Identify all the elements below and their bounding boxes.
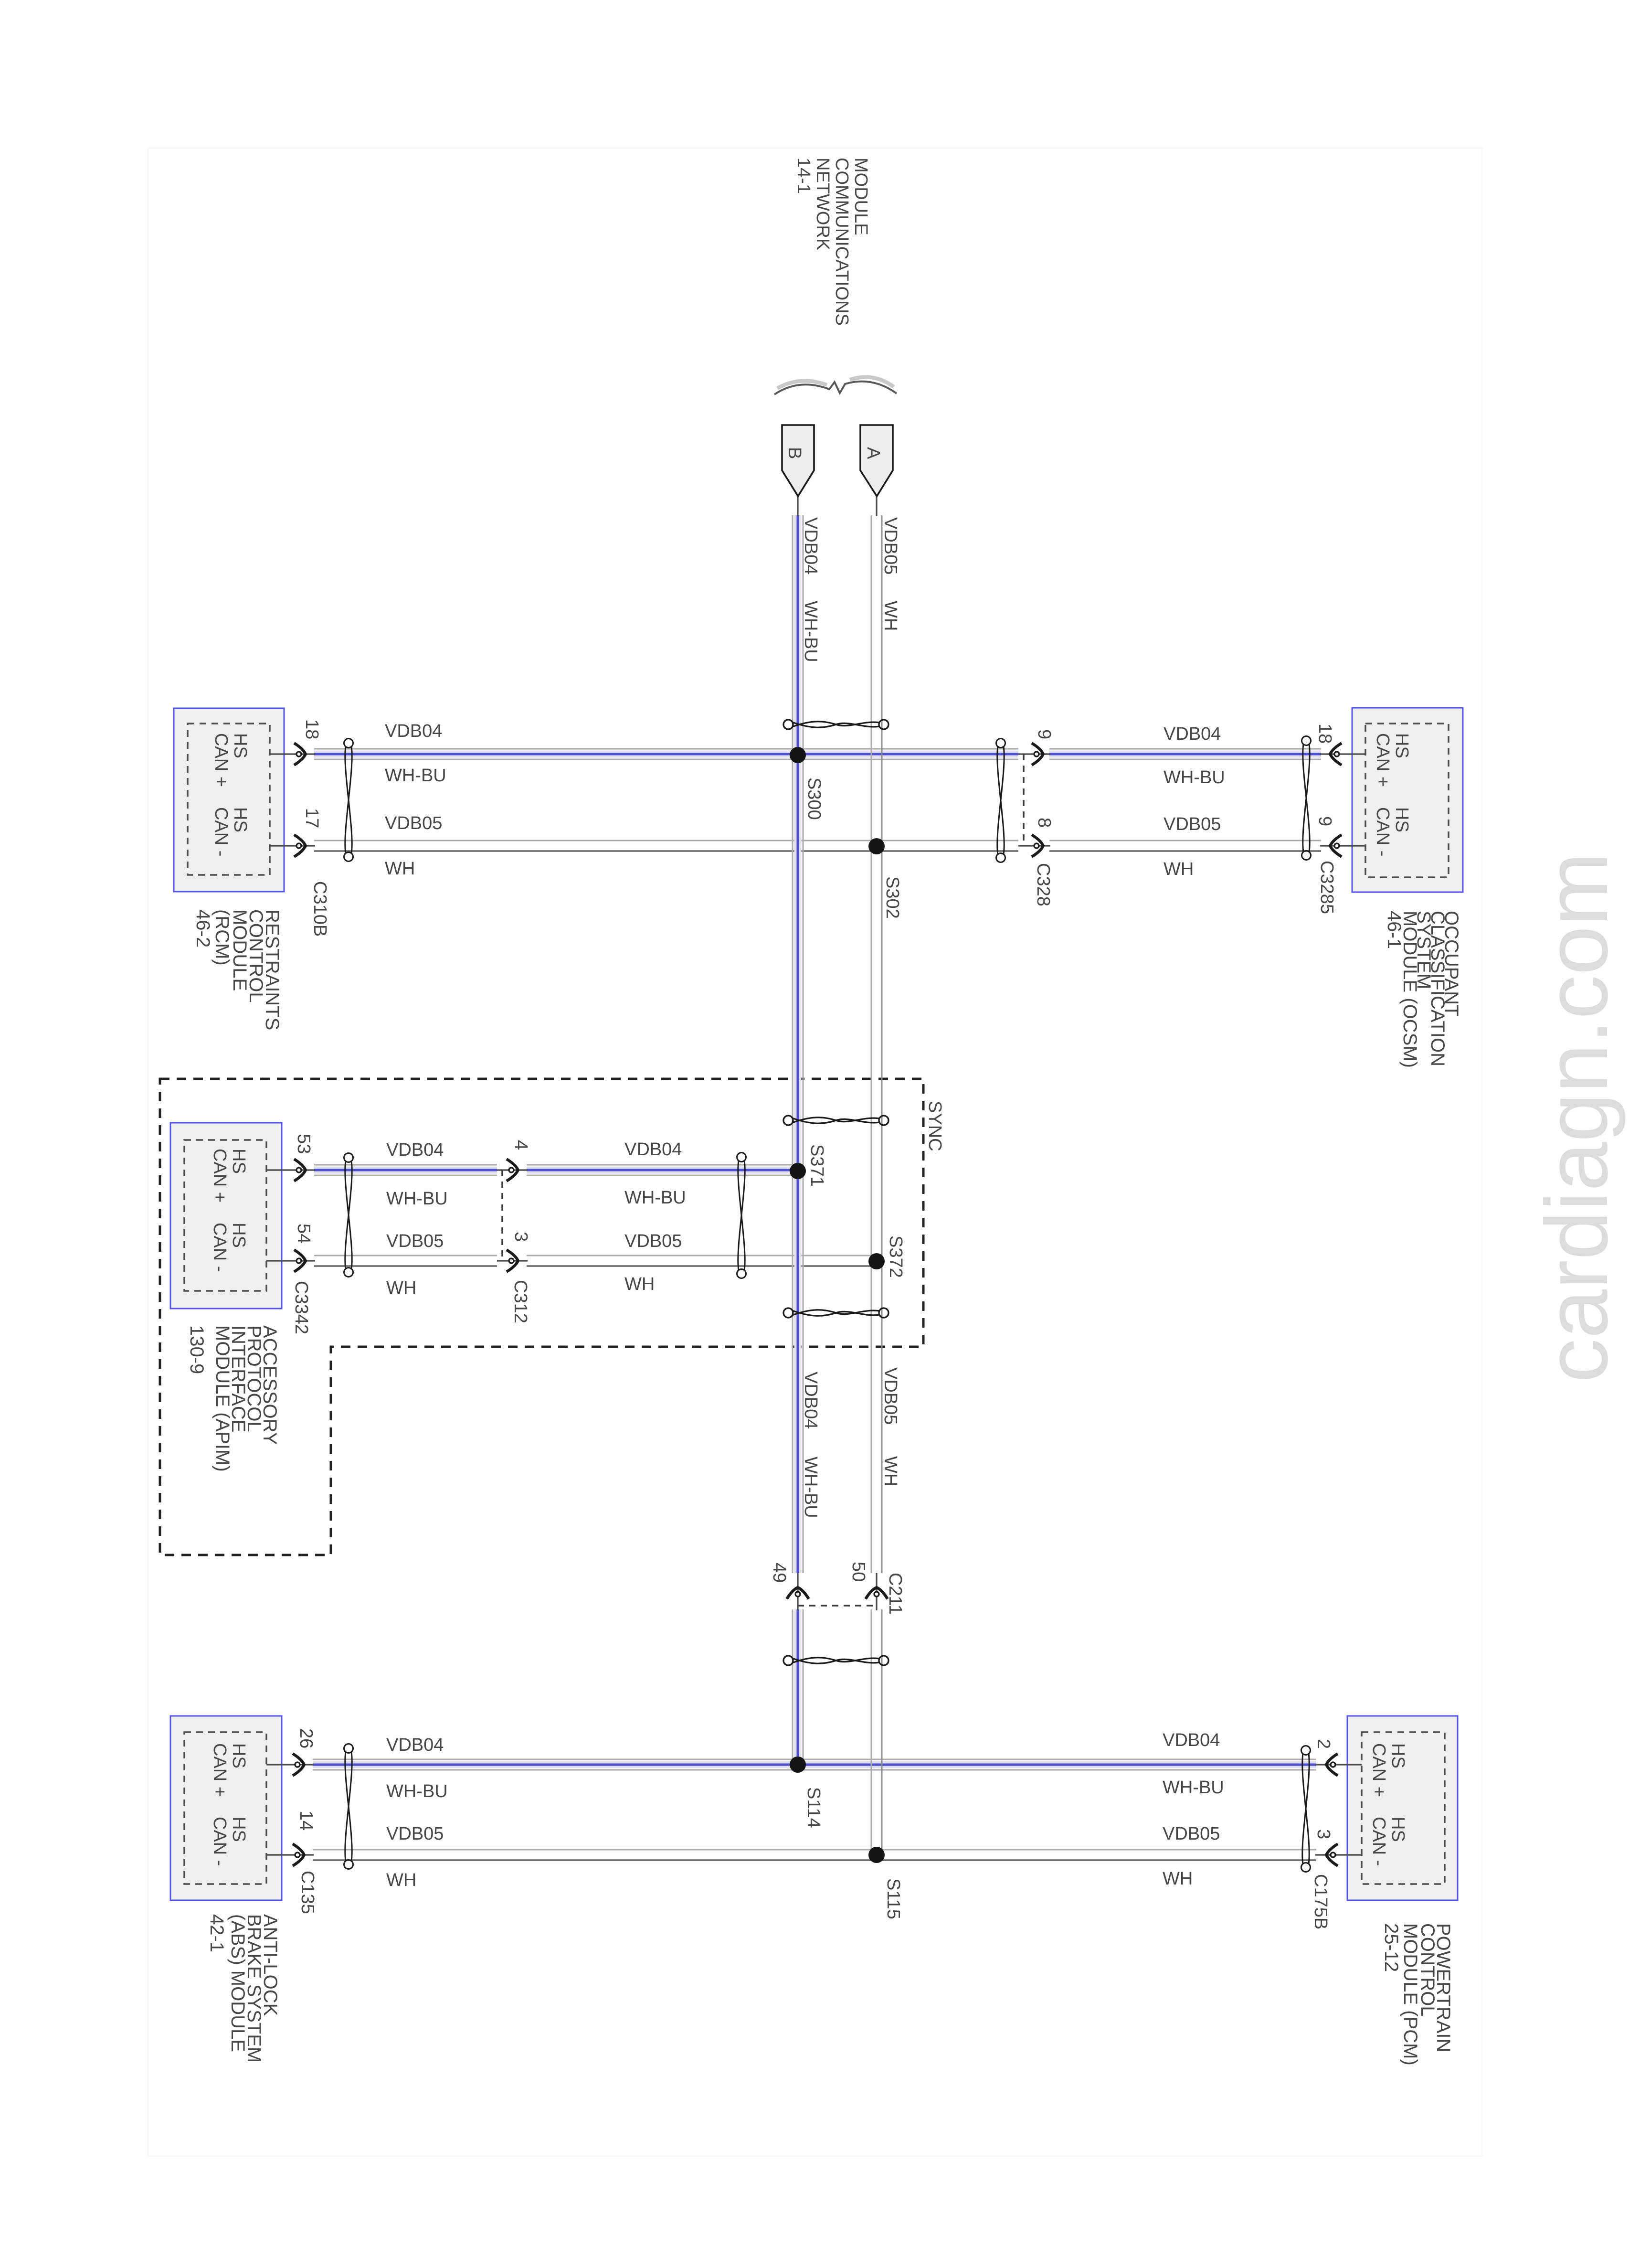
svg-text:VDB05: VDB05 [386,1824,444,1844]
wire VDB05 WH ABS to PCM tube [313,1849,1316,1851]
svg-text:VDB04: VDB04 [1163,1730,1220,1750]
svg-text:CAN +: CAN + [210,1743,230,1797]
bus B stub through C211 [797,1573,798,1610]
svg-text:14-1: 14-1 [793,158,814,194]
svg-text:25-12: 25-12 [1381,1923,1402,1972]
svg-text:VDB04: VDB04 [801,517,821,575]
twisted pair symbol bus above S371 [783,1116,889,1125]
connector pentagon A [860,425,893,496]
svg-text:42-1: 42-1 [206,1914,227,1952]
svg-text:MODULE: MODULE [851,158,871,235]
svg-text:C175B: C175B [1311,1874,1331,1929]
svg-text:HS: HS [229,1149,249,1174]
connector C3285 dashed outline [1365,724,1449,877]
terminal arrow OCSM pin 18 [1330,743,1342,765]
svg-text:S300: S300 [804,777,824,820]
bus A VDB05 WH vertical tube seg1 [871,515,872,1573]
splice S302 dot [868,838,885,854]
wire VDB04 pin stub at RCM [270,753,315,755]
svg-text:CAN +: CAN + [211,733,231,787]
terminal arrow RCM pin 17 [294,835,306,857]
terminal arrow PCM pin 2 [1326,1754,1338,1776]
bus A stub from pentagon [876,496,877,516]
wire VDB04 ABS-PCM blue core [313,1761,1316,1768]
terminal arrow C211 pin 50 [866,1587,888,1599]
svg-text:WH: WH [880,1456,900,1486]
svg-text:WH-BU: WH-BU [386,1781,448,1801]
wire VDB05 pin stub at ABS [266,1854,314,1855]
wire VDB05 pin stub at OCSM [1320,845,1365,846]
svg-text:WH-BU: WH-BU [624,1188,686,1208]
wire VDB05 stub through C312 [497,1260,528,1261]
svg-text:HS: HS [230,807,250,832]
svg-text:WH: WH [385,859,415,879]
svg-text:4: 4 [511,1140,531,1150]
svg-text:C211: C211 [885,1573,905,1615]
wire VDB04 pin stub at APIM [266,1169,315,1171]
twisted pair symbol bus above S300 [783,720,889,729]
svg-text:26: 26 [296,1728,316,1748]
svg-text:VDB05: VDB05 [385,813,442,833]
svg-text:46-1: 46-1 [1384,911,1405,949]
wire VDB04 WH-BU ABS to PCM tube [313,1759,1316,1760]
svg-text:WH: WH [1163,1869,1193,1889]
twisted pair symbol RCM branch [344,739,353,862]
bus B stub from pentagon [797,496,798,516]
wire VDB05 pin stub at RCM [270,845,315,846]
svg-text:(ABS) MODULE: (ABS) MODULE [227,1914,248,2052]
svg-text:17: 17 [302,808,322,828]
svg-text:130-9: 130-9 [186,1325,207,1374]
svg-text:HS: HS [229,1743,249,1768]
svg-text:MODULE (APIM): MODULE (APIM) [212,1325,233,1472]
terminal arrow OCSM pin 9 [1330,835,1342,857]
wire VDB05 stub through C328 [1018,845,1050,846]
wire VDB05 pin stub at APIM [266,1260,315,1261]
svg-text:CAN -: CAN - [210,1223,230,1272]
wire VDB05 WH C312 to S372 tube [527,1255,874,1256]
drawing frame [148,148,1482,2156]
svg-text:9: 9 [1315,816,1335,826]
terminal arrow ABS pin 14 [293,1844,304,1866]
svg-text:VDB04: VDB04 [624,1139,682,1160]
bus B VDB04 WH-BU vertical tube seg1 [792,515,793,1573]
connector C211 dashed line [798,1605,877,1607]
svg-text:18: 18 [302,719,322,739]
bus A VDB05 WH vertical tube seg2 [871,1609,872,1850]
splice S114 dot [790,1757,806,1773]
svg-text:S371: S371 [807,1144,827,1187]
svg-text:CAN +: CAN + [210,1149,230,1203]
svg-text:WH: WH [1164,859,1194,879]
wire VDB04 APIM blue core [314,1167,497,1174]
svg-text:53: 53 [294,1134,314,1154]
svg-text:3: 3 [511,1232,531,1242]
svg-text:HS: HS [1392,733,1412,758]
svg-text:C3342: C3342 [291,1281,311,1334]
svg-text:(RCM): (RCM) [212,909,233,966]
svg-text:VDB04: VDB04 [801,1372,821,1429]
svg-text:VDB05: VDB05 [1164,814,1221,834]
svg-text:WH: WH [386,1870,416,1890]
svg-text:WH-BU: WH-BU [386,1189,448,1209]
svg-text:CAN -: CAN - [1369,1817,1389,1866]
connector C328 dashed line [1023,754,1025,846]
wire VDB04 WH-BU APIM to C312 tube [314,1164,497,1166]
svg-text:49: 49 [769,1563,789,1583]
connector C312 dashed line [501,1170,503,1261]
svg-text:2: 2 [1313,1739,1333,1749]
SYNC system dashed enclosure [160,1079,923,1555]
wire VDB04 pin stub at OCSM [1320,753,1365,755]
wire VDB05 WH APIM to C312 tube [314,1255,497,1256]
connector C3342 dashed outline [184,1140,266,1291]
svg-text:WH-BU: WH-BU [801,601,821,662]
svg-text:CAN -: CAN - [210,1817,230,1866]
twisted pair symbol bus below S372 [783,1308,889,1318]
svg-text:VDB04: VDB04 [385,721,442,741]
twisted pair symbol ABS branch [344,1744,353,1869]
module OCSM box [1352,708,1463,892]
svg-text:S115: S115 [883,1878,903,1919]
svg-text:C310B: C310B [310,881,330,937]
bus continuation brace [774,377,897,394]
terminal arrow ABS pin 26 [293,1754,304,1776]
splice S372 dot [868,1253,885,1269]
svg-text:HS: HS [229,1223,249,1248]
wire VDB04 WH-BU RCM to OCSM tube seg1 [314,748,1018,750]
terminal arrow C328 pin 9 [1032,743,1043,765]
twisted pair symbol before PCM [1301,1746,1311,1872]
svg-text:cardiagn.com: cardiagn.com [1528,852,1626,1383]
svg-text:NETWORK: NETWORK [813,158,833,250]
svg-text:HS: HS [1392,807,1412,832]
svg-text:C3285: C3285 [1317,861,1337,914]
svg-text:SYNC: SYNC [925,1101,945,1151]
svg-text:CAN +: CAN + [1369,1743,1389,1797]
terminal arrow RCM pin 18 [294,743,306,765]
splice S115 dot [868,1847,885,1863]
svg-text:VDB04: VDB04 [1164,724,1221,744]
wire VDB04 pin stub at PCM [1315,1764,1362,1765]
svg-text:18: 18 [1315,724,1335,744]
svg-text:COMMUNICATIONS: COMMUNICATIONS [832,158,852,326]
svg-text:HS: HS [230,733,250,758]
twisted pair symbol APIM branch [344,1153,353,1277]
svg-text:C312: C312 [510,1280,530,1323]
connector C175B dashed outline [1362,1732,1445,1884]
svg-text:S372: S372 [886,1235,906,1278]
twisted pair symbol after C312 [737,1153,746,1278]
svg-text:WH-BU: WH-BU [385,766,446,786]
svg-text:WH-BU: WH-BU [1163,1778,1224,1798]
module APIM box [170,1123,282,1309]
svg-text:CAN -: CAN - [1373,807,1393,856]
wire VDB04 WH-BU RCM-OCSM blue core [314,751,1018,758]
svg-text:WH-BU: WH-BU [1164,767,1225,788]
svg-text:WH-BU: WH-BU [801,1457,821,1518]
svg-text:S114: S114 [804,1787,824,1828]
terminal arrow C312 pin 3 [507,1250,518,1272]
svg-text:C328: C328 [1033,863,1053,906]
svg-text:VDB05: VDB05 [624,1231,682,1251]
terminal arrow C328 pin 8 [1032,835,1043,857]
svg-text:CAN +: CAN + [1373,733,1393,787]
bus B blue core [794,515,802,1573]
module PCM box [1347,1716,1458,1900]
svg-text:46-2: 46-2 [192,909,213,948]
wire VDB04 WH-BU C312 to S371 tube [527,1164,795,1166]
wire VDB04 stub through C312 [497,1169,528,1171]
twisted pair symbol bus below C211 [783,1656,889,1665]
wire VDB05 WH RCM to OCSM tube seg1 [314,840,1018,841]
splice S371 dot [790,1163,806,1179]
splice S300 dot [790,747,806,763]
twisted pair symbol before C328 [996,739,1005,862]
bus B VDB04 WH-BU vertical tube seg2 [792,1609,793,1759]
terminal arrow APIM pin 54 [294,1250,306,1272]
svg-text:HS: HS [1388,1817,1408,1842]
svg-text:A: A [863,447,883,459]
svg-text:VDB05: VDB05 [386,1231,444,1251]
svg-text:S302: S302 [882,876,902,919]
wire VDB04 WH-BU RCM to OCSM tube seg2 [1049,748,1321,750]
wire VDB05 pin stub at PCM [1315,1854,1362,1855]
wire VDB05 WH RCM to OCSM tube seg2 [1049,840,1321,841]
module RCM box [174,708,284,892]
terminal arrow APIM pin 53 [294,1159,306,1181]
bus A stub through C211 [876,1573,877,1610]
terminal arrow PCM pin 3 [1326,1844,1338,1866]
svg-text:VDB04: VDB04 [386,1735,444,1755]
svg-text:VDB05: VDB05 [880,517,900,575]
connector C310B dashed outline [188,724,270,875]
svg-text:9: 9 [1034,729,1054,739]
svg-text:HS: HS [1388,1743,1408,1768]
svg-text:VDB05: VDB05 [1163,1824,1220,1844]
svg-text:8: 8 [1034,818,1054,828]
svg-text:HS: HS [229,1817,249,1842]
svg-text:54: 54 [294,1224,314,1244]
svg-text:WH: WH [624,1274,655,1294]
svg-text:3: 3 [1313,1829,1333,1839]
connector pentagon B [782,425,814,496]
svg-text:VDB04: VDB04 [386,1140,444,1160]
svg-text:VDB05: VDB05 [880,1367,900,1425]
svg-text:14: 14 [296,1810,316,1831]
module ABS box [170,1716,282,1900]
connector C135 dashed outline [184,1732,266,1884]
terminal arrow C211 pin 49 [787,1587,809,1599]
svg-text:WH: WH [880,601,900,631]
svg-text:50: 50 [848,1562,868,1582]
svg-text:B: B [784,447,804,459]
svg-text:CAN -: CAN - [211,807,231,856]
svg-text:MODULE (PCM): MODULE (PCM) [1400,1923,1421,2066]
twisted pair symbol before OCSM [1302,736,1311,860]
svg-text:WH: WH [386,1278,416,1298]
svg-text:C135: C135 [297,1871,317,1914]
wire VDB04 stub through C328 [1018,753,1050,755]
terminal arrow C312 pin 4 [507,1159,518,1181]
wire VDB04 pin stub at ABS [266,1764,314,1765]
